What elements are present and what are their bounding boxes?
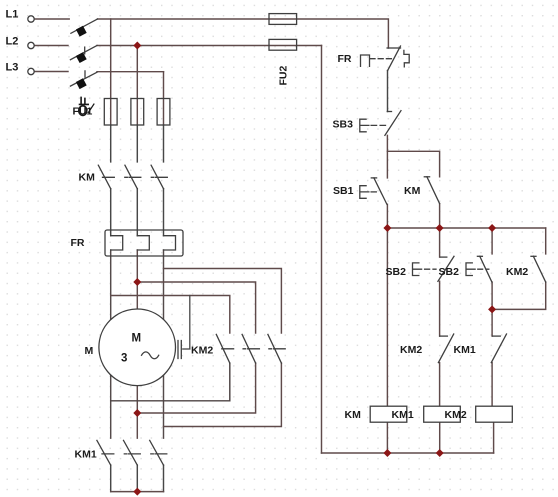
svg-text:SB2: SB2 [386, 266, 407, 278]
switch QS pole 3 tick [84, 71, 86, 77]
wire phase3 lower [163, 250, 165, 438]
contact KM aux tick [424, 176, 429, 178]
switch QS pole 3 handle [76, 78, 87, 89]
interlock KM2 blade [438, 334, 453, 363]
button SB2a dashes [425, 268, 436, 270]
label FU1 slash [88, 104, 94, 113]
interlock KM2 seat [440, 335, 448, 337]
button SB2a blade [438, 256, 454, 281]
node bus KM aux [436, 224, 444, 232]
relay FR actuator dashes [370, 58, 392, 60]
contactor KM2 pole 1 [216, 334, 230, 363]
svg-text:SB3: SB3 [333, 119, 354, 131]
switch QS pole 2 handle [76, 52, 87, 63]
svg-text:KM1: KM1 [75, 448, 97, 460]
wire phase3 bottom [163, 465, 165, 492]
wire L1 row to FU2 and FR drop [98, 19, 389, 48]
wire control bus [387, 227, 545, 229]
svg-text:FR: FR [338, 53, 352, 65]
contactor KM pole 3 [151, 165, 163, 189]
relay contact FR seat [387, 47, 400, 49]
wire phase3 mid [163, 189, 165, 236]
node phase2 KM2 tap [133, 278, 141, 286]
wire SB2b top [491, 228, 493, 254]
relay contact FR blade [388, 46, 401, 71]
button SB3 dashes [371, 124, 385, 126]
thermal relay FR heater element 2 [137, 236, 149, 250]
wire L2 row to FU2 [97, 45, 322, 47]
button SB2b tick [477, 255, 482, 257]
wire FR to SB3 [387, 71, 389, 112]
thermal relay FR heater box [105, 230, 183, 256]
label FU1 rotated F [80, 97, 89, 104]
node bus SB2b [488, 224, 496, 232]
wire KM2-2 bottom return [137, 363, 255, 413]
svg-text:KM: KM [404, 185, 421, 197]
junction diamonds [133, 42, 496, 496]
svg-text:L3: L3 [6, 61, 19, 73]
motor terminal bars [178, 341, 190, 359]
svg-text:SB1: SB1 [333, 185, 354, 197]
node rail KM coil [383, 449, 391, 457]
thermal relay FR heater element 3 [164, 236, 176, 250]
svg-text:KM2: KM2 [400, 344, 422, 356]
contactor KM1 linkage [102, 453, 167, 455]
wire phase2 upper [136, 46, 138, 126]
svg-text:SB2: SB2 [439, 266, 460, 278]
interlock KM1 blade [491, 334, 506, 363]
contactor KM1 pole 1 [97, 440, 111, 465]
svg-text:KM: KM [79, 172, 96, 184]
wire phase1 to KM2-1 top [111, 296, 230, 334]
button SB1 blade [374, 178, 387, 204]
switch QS pole 1 handle [76, 26, 87, 37]
terminal L3 [28, 68, 34, 74]
switch QS pole 3 blade [70, 72, 97, 86]
fuse FU1 pole 1 [104, 99, 117, 126]
contactor KM1 pole 2 [124, 440, 138, 465]
switch QS pole 2 blade [70, 46, 97, 60]
labels [6, 9, 19, 74]
contact KM aux blade [427, 177, 440, 204]
wire phase2 bottom [136, 465, 138, 492]
svg-text:KM1: KM1 [392, 409, 414, 421]
svg-text:FU2: FU2 [278, 66, 290, 86]
coil KM2 [476, 406, 513, 422]
wire phase1 bottom [110, 465, 112, 492]
wire KM1 coil drop [439, 422, 441, 453]
wire left control rail [321, 46, 323, 454]
contact KM2 aux blade [533, 256, 545, 282]
wire KM2 aux branch top [545, 228, 547, 254]
contactor KM2 linkage [222, 348, 286, 350]
svg-text:M: M [85, 345, 94, 357]
button SB2a seat [440, 256, 447, 258]
label FU1 overlap blob [79, 106, 87, 116]
wire phase1 upper [110, 19, 112, 125]
motor M circle [99, 309, 176, 386]
svg-text:3: 3 [121, 353, 127, 365]
wire KM2 actuator tap [189, 296, 191, 349]
node KM2 aux return [488, 305, 496, 313]
coil KM [370, 406, 407, 422]
node motor bottom tap [133, 409, 141, 417]
node bus SB1 [383, 224, 391, 232]
motor sine symbol [142, 352, 159, 359]
wire T branch to KM aux [387, 151, 439, 177]
contactor KM2 pole 2 [242, 334, 256, 363]
svg-text:M: M [132, 333, 142, 345]
button SB2b actuator E [466, 263, 475, 276]
button SB2a actuator E [413, 263, 422, 276]
contactor KM1 pole 3 [150, 440, 164, 465]
wire SB2b to KM1 interlock [491, 282, 493, 336]
wire phase2 to KM2-2 top [137, 282, 255, 333]
wire KM1 star bus [111, 491, 164, 493]
wire phase3 to KM2-3 top [164, 269, 282, 334]
interlock KM1 seat [493, 335, 501, 337]
svg-text:KM2: KM2 [506, 266, 528, 278]
wire KM2-3 bottom return [164, 363, 282, 426]
wire phase2 mid [136, 189, 138, 236]
wire SB1 bottom [386, 204, 388, 228]
relay FR actuator [361, 55, 370, 66]
button SB2b dashes [478, 268, 489, 270]
button SB1 tick [371, 177, 376, 179]
button SB3 actuator E [360, 119, 369, 132]
fuse FU1 pole 2 [131, 99, 144, 126]
svg-text:L1: L1 [6, 9, 19, 21]
wire phase3 upper [163, 72, 165, 125]
node rail KM1 coil [436, 449, 444, 457]
svg-text:KM1: KM1 [454, 344, 476, 356]
fuse FU2 pole 2 [269, 39, 297, 50]
wire KM1 interlock to KM2 coil [491, 363, 493, 407]
thermal relay FR heater element 1 [111, 236, 123, 250]
coil KM1 [424, 406, 461, 422]
node star point [133, 488, 141, 496]
button SB1 dashes [371, 191, 378, 193]
terminal L2 [28, 42, 34, 48]
svg-text:FR: FR [71, 237, 85, 249]
node L2 tap [133, 42, 141, 50]
wire KM coil drop [386, 422, 388, 453]
wire bottom control rail [322, 452, 494, 454]
wire L1 lead [34, 18, 69, 20]
switch QS pole 2 tick [84, 47, 86, 54]
contactor KM pole 2 [125, 165, 137, 189]
svg-text:KM2: KM2 [191, 345, 213, 357]
contactor KM linkage [103, 176, 168, 178]
switch QS pole 1 blade [71, 19, 98, 33]
button SB3 blade [385, 111, 401, 136]
wire phase1 lower [110, 250, 112, 438]
wire SB2a to KM2 interlock [439, 281, 441, 336]
wire SB3 to SB1 column [386, 135, 388, 178]
button SB1 actuator E [360, 186, 369, 199]
relay contact FR hook [404, 50, 409, 66]
wire KM2 aux branch bottom [492, 282, 546, 309]
wire KM2 coil drop [493, 422, 495, 453]
svg-text:L2: L2 [6, 35, 19, 47]
contact KM2 aux tick [531, 255, 536, 257]
wire L2 lead [34, 45, 68, 47]
button SB3 seat [387, 111, 391, 113]
fuse FU1 pole 3 [157, 99, 170, 126]
button SB2b blade [480, 256, 492, 282]
svg-text:KM2: KM2 [445, 409, 467, 421]
terminal L1 [28, 16, 34, 22]
wire L3 lead [34, 71, 68, 73]
wire KM2 interlock to KM1 coil [439, 363, 441, 407]
fuse FU2 pole 1 [269, 14, 297, 25]
svg-text:KM: KM [345, 409, 362, 421]
contactor KM pole 1 [98, 165, 110, 189]
wire KM aux bottom [439, 204, 441, 228]
wire phase2 lower [136, 250, 138, 438]
wire SB2a top [439, 228, 441, 257]
contactor KM2 pole 3 [268, 334, 282, 363]
wire KM2-1 bottom return [111, 363, 230, 401]
wire KM coil branch [386, 228, 388, 406]
wire L3 row [97, 71, 164, 73]
wire phase1 mid [110, 189, 112, 236]
